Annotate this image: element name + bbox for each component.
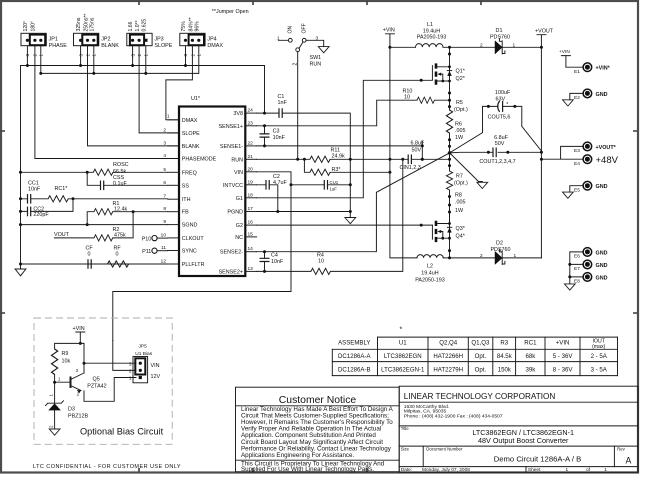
svg-text:Q4*: Q4* (456, 234, 466, 240)
svg-text:E6: E6 (574, 254, 580, 260)
svg-text:+48V: +48V (596, 155, 619, 166)
svg-text:(Opt.): (Opt.) (454, 181, 468, 187)
svg-text:10nF: 10nF (273, 135, 286, 141)
svg-text:10: 10 (404, 95, 410, 101)
svg-text:Phone : (408) 432-1900 Fax :: Phone : (408) 432-1900 Fax : (408) 434-0… (404, 414, 503, 420)
svg-text:22: 22 (248, 140, 254, 146)
svg-text:Q1,Q3: Q1,Q3 (471, 340, 490, 347)
svg-text:INTVCC: INTVCC (223, 183, 243, 189)
svg-text:+VIN: +VIN (73, 326, 85, 332)
svg-text:C1: C1 (278, 94, 285, 100)
svg-text:1: 1 (604, 467, 607, 473)
svg-text:D2: D2 (496, 241, 503, 247)
svg-text:R9: R9 (62, 351, 69, 357)
svg-text:+VOUT: +VOUT (535, 28, 554, 34)
svg-text:12V: 12V (151, 374, 161, 380)
svg-text:Document Number: Document Number (426, 447, 463, 452)
svg-text:CSS: CSS (113, 175, 124, 181)
svg-text:Customer Notice: Customer Notice (279, 395, 357, 406)
svg-text:ITH: ITH (182, 197, 191, 203)
svg-text:COUT5,6: COUT5,6 (488, 115, 511, 121)
svg-text:BLANK: BLANK (101, 43, 119, 49)
svg-text:Date:: Date: (401, 467, 412, 473)
svg-text:DC1286A-B: DC1286A-B (338, 367, 371, 374)
svg-text:PHASEMODE: PHASEMODE (182, 157, 217, 163)
svg-text:21: 21 (248, 154, 254, 160)
svg-text:(max): (max) (592, 344, 606, 350)
svg-text:1: 1 (566, 467, 569, 473)
svg-text:Supplied For Use With Linear T: Supplied For Use With Linear Technology … (241, 466, 374, 473)
svg-text:GND: GND (596, 263, 608, 269)
svg-text:0: 0 (88, 252, 91, 258)
svg-text:Applications Engineering For A: Applications Engineering For Assistance. (241, 452, 355, 459)
svg-text:DC1286A-A: DC1286A-A (338, 353, 371, 360)
svg-text:Demo Circuit 1286A-A / B: Demo Circuit 1286A-A / B (494, 455, 582, 464)
svg-text:PZTA42: PZTA42 (87, 383, 106, 389)
svg-text:11: 11 (161, 245, 166, 251)
svg-text:R8: R8 (455, 193, 462, 199)
svg-text:2: 2 (480, 43, 483, 49)
svg-text:L1: L1 (427, 22, 433, 28)
svg-text:1: 1 (514, 253, 517, 259)
svg-text:325ns: 325ns (76, 17, 82, 31)
svg-text:E5: E5 (574, 188, 580, 194)
svg-text:SLOPE: SLOPE (182, 131, 200, 137)
svg-text:D3: D3 (68, 407, 75, 413)
svg-text:CLKOUT: CLKOUT (182, 236, 205, 242)
svg-text:ROSC: ROSC (113, 162, 129, 168)
svg-text:2: 2 (480, 253, 483, 259)
svg-text:4.7uF: 4.7uF (273, 180, 287, 186)
svg-text:JP3: JP3 (154, 37, 163, 43)
svg-text:PBZ12B: PBZ12B (68, 414, 88, 420)
svg-text:ASSEMBLY: ASSEMBLY (338, 340, 370, 347)
svg-text:3V8: 3V8 (233, 111, 243, 117)
svg-text:BLANK: BLANK (182, 144, 200, 150)
svg-text:15: 15 (248, 231, 254, 237)
svg-text:2: 2 (129, 369, 132, 375)
svg-text:G1: G1 (236, 196, 243, 202)
svg-text:24: 24 (248, 108, 254, 114)
svg-text:RUN: RUN (310, 61, 322, 67)
svg-text:C4: C4 (271, 253, 278, 259)
svg-text:Rev: Rev (617, 447, 625, 452)
svg-text:VOUT: VOUT (54, 232, 70, 238)
svg-text:G2: G2 (236, 223, 243, 229)
svg-text:R3*: R3* (332, 167, 342, 173)
svg-text:+VIN: +VIN (556, 340, 570, 347)
svg-text:JP4: JP4 (207, 37, 216, 43)
svg-text:GND: GND (596, 184, 608, 190)
svg-text:NC: NC (235, 235, 243, 241)
svg-text:R10: R10 (403, 88, 413, 94)
svg-text:Q5: Q5 (93, 376, 100, 382)
svg-text:P11: P11 (142, 249, 151, 255)
svg-text:48V Output Boost Converter: 48V Output Boost Converter (478, 436, 569, 445)
svg-text:14: 14 (248, 246, 254, 252)
svg-text:RUN: RUN (231, 157, 243, 163)
svg-text:150k: 150k (498, 367, 512, 374)
svg-text:1nF: 1nF (278, 100, 288, 106)
svg-text:PHASE: PHASE (49, 43, 68, 49)
svg-text:JP2: JP2 (101, 37, 110, 43)
svg-text:E1: E1 (574, 69, 580, 75)
svg-text:R3: R3 (500, 340, 508, 347)
svg-text:GND: GND (596, 92, 608, 98)
svg-text:5 - 36V: 5 - 36V (553, 353, 574, 360)
svg-text:GND: GND (596, 250, 608, 256)
svg-text:1: 1 (277, 35, 280, 41)
svg-text:39k: 39k (525, 367, 536, 374)
svg-text:75%: 75% (181, 21, 187, 32)
svg-text:FREQ: FREQ (182, 170, 197, 176)
svg-text:1.66: 1.66 (128, 21, 134, 31)
svg-text:DMAX: DMAX (182, 118, 198, 124)
svg-text:0.625: 0.625 (142, 19, 148, 32)
svg-text:1uF: 1uF (330, 187, 338, 192)
svg-text:LTC3862EGN-1: LTC3862EGN-1 (381, 367, 425, 374)
svg-text:0.1uF: 0.1uF (113, 181, 127, 187)
svg-text:SW1: SW1 (310, 55, 322, 61)
svg-text:PDS760: PDS760 (490, 247, 510, 253)
svg-text:17: 17 (248, 206, 254, 212)
svg-text:R6: R6 (455, 122, 462, 128)
svg-text:RC1*: RC1* (55, 186, 69, 192)
svg-text:10: 10 (161, 232, 167, 238)
svg-text:100uF: 100uF (495, 90, 511, 96)
svg-text:2: 2 (49, 425, 54, 428)
svg-text:180°: 180° (31, 21, 37, 32)
svg-text:CU1: CU1 (330, 180, 339, 185)
svg-text:2: 2 (293, 63, 299, 66)
svg-text:1: 1 (167, 114, 170, 120)
svg-text:13: 13 (248, 266, 254, 272)
svg-text:SENSE1+: SENSE1+ (219, 124, 243, 130)
svg-text:RF: RF (114, 245, 122, 251)
svg-text:JP5: JP5 (139, 344, 148, 350)
svg-text:R4: R4 (317, 252, 324, 258)
svg-text:1: 1 (513, 43, 516, 49)
svg-text:12.4k: 12.4k (114, 206, 127, 212)
svg-text:LTC CONFIDENTIAL - FOR CUSTOME: LTC CONFIDENTIAL - FOR CUSTOMER USE ONLY (33, 464, 181, 470)
svg-text:SS: SS (182, 183, 190, 189)
svg-text:Optional Bias Circuit: Optional Bias Circuit (80, 426, 164, 436)
svg-text:SENSE1-: SENSE1- (220, 144, 243, 150)
svg-text:DMAX: DMAX (207, 43, 223, 49)
svg-text:16: 16 (248, 220, 254, 226)
svg-text:50V: 50V (495, 141, 505, 147)
svg-text:250ns**: 250ns** (83, 14, 89, 32)
svg-text:10nF: 10nF (28, 186, 41, 192)
svg-text:E4: E4 (574, 161, 580, 167)
svg-text:ON: ON (287, 26, 293, 34)
svg-text:+VIN*: +VIN* (596, 66, 611, 72)
svg-text:10nF: 10nF (271, 259, 284, 265)
svg-text:+VIN: +VIN (559, 49, 570, 55)
svg-text:SLOPE: SLOPE (154, 43, 172, 49)
svg-text:6.8uF: 6.8uF (494, 135, 508, 141)
svg-text:OFF: OFF (301, 23, 307, 33)
svg-text:E3: E3 (574, 148, 580, 154)
svg-text:FB: FB (182, 210, 189, 216)
svg-text:3: 3 (163, 140, 166, 146)
svg-text:Opt.: Opt. (475, 367, 487, 374)
svg-text:VIN: VIN (151, 363, 160, 369)
svg-text:1: 1 (129, 376, 132, 382)
svg-text:19.4uH: 19.4uH (421, 271, 438, 277)
svg-text:Sheet: Sheet (528, 467, 541, 473)
svg-text:P10: P10 (142, 236, 152, 242)
svg-text:of: of (586, 467, 591, 473)
svg-text:84.5k: 84.5k (497, 353, 513, 360)
svg-text:Title: Title (401, 426, 410, 431)
svg-text:23: 23 (248, 120, 254, 126)
svg-text:VIN: VIN (234, 170, 243, 176)
svg-text:RC1: RC1 (524, 340, 537, 347)
svg-text:**Jumper Open: **Jumper Open (212, 9, 249, 15)
svg-text:10: 10 (318, 259, 324, 265)
svg-text:SENSE2-: SENSE2- (220, 250, 243, 256)
svg-text:LINEAR TECHNOLOGY CORPORATION: LINEAR TECHNOLOGY CORPORATION (404, 392, 556, 401)
svg-text:1W: 1W (455, 208, 464, 214)
svg-text:Q1*: Q1* (456, 69, 466, 75)
svg-text:D1: D1 (496, 28, 503, 34)
svg-text:63V: 63V (496, 97, 506, 103)
svg-text:U1*: U1* (191, 96, 201, 102)
svg-text:50V: 50V (412, 147, 422, 153)
svg-text:Q2,Q4: Q2,Q4 (439, 340, 458, 347)
svg-text:*: * (400, 327, 403, 334)
svg-text:.005: .005 (455, 128, 466, 134)
svg-text:1.0**: 1.0** (135, 20, 141, 31)
svg-text:Q2*: Q2* (456, 76, 466, 82)
svg-text:84%**: 84%** (188, 17, 194, 31)
svg-text:PGND: PGND (227, 210, 243, 216)
svg-text:CF: CF (86, 245, 94, 251)
svg-text:3: 3 (316, 35, 319, 41)
svg-text:3: 3 (129, 361, 132, 367)
svg-text:175ns: 175ns (90, 17, 96, 31)
svg-text:A: A (626, 455, 632, 465)
svg-text:R5: R5 (456, 100, 463, 106)
svg-text:10k: 10k (62, 358, 71, 364)
svg-text:0: 0 (116, 252, 119, 258)
svg-text:24.9k: 24.9k (332, 154, 345, 160)
svg-text:E7: E7 (574, 266, 580, 272)
svg-text:475k: 475k (114, 233, 126, 239)
svg-text:PA2050-193: PA2050-193 (417, 35, 447, 41)
svg-text:L2: L2 (427, 264, 433, 270)
svg-text:PLLFLTR: PLLFLTR (182, 262, 205, 268)
svg-text:1: 1 (49, 394, 54, 397)
svg-text:JP1: JP1 (49, 37, 58, 43)
svg-text:Size: Size (401, 447, 410, 452)
svg-text:PDS760: PDS760 (490, 34, 510, 40)
svg-text:20: 20 (248, 166, 254, 172)
svg-text:U1: U1 (399, 340, 407, 347)
svg-text:2: 2 (163, 127, 166, 133)
svg-text:(Opt.): (Opt.) (454, 107, 468, 113)
svg-text:120°: 120° (23, 21, 29, 32)
svg-text:COUT1,2,3,4,7: COUT1,2,3,4,7 (479, 159, 515, 165)
svg-text:96%: 96% (195, 21, 201, 32)
svg-text:1W: 1W (455, 135, 464, 141)
svg-text:.005: .005 (455, 199, 466, 205)
svg-text:Monday, July 07, 2008: Monday, July 07, 2008 (422, 467, 470, 473)
svg-text:HAT2279H: HAT2279H (433, 367, 463, 374)
svg-text:SENSE2+: SENSE2+ (219, 269, 243, 275)
svg-text:R7: R7 (456, 174, 463, 180)
svg-text:2 - 5A: 2 - 5A (591, 353, 608, 360)
svg-text:+VOUT*: +VOUT* (596, 145, 617, 151)
svg-text:18: 18 (248, 192, 254, 198)
svg-text:Q3*: Q3* (456, 226, 466, 232)
svg-text:C2: C2 (273, 174, 280, 180)
svg-text:3 - 5A: 3 - 5A (591, 367, 608, 374)
svg-text:LTC3862EGN: LTC3862EGN (384, 353, 422, 360)
svg-text:SYNC: SYNC (182, 249, 197, 255)
svg-text:SGND: SGND (182, 223, 198, 229)
svg-text:4: 4 (163, 153, 166, 159)
svg-text:6.8uF: 6.8uF (411, 140, 425, 146)
svg-text:68k: 68k (525, 353, 536, 360)
svg-text:220pF: 220pF (33, 212, 49, 218)
svg-text:GND: GND (596, 275, 608, 281)
svg-text:HAT2266H: HAT2266H (433, 353, 463, 360)
svg-text:PA2050-193: PA2050-193 (415, 278, 445, 284)
svg-text:E8: E8 (574, 279, 580, 285)
svg-text:+VIN: +VIN (383, 28, 395, 34)
svg-text:8 - 36V: 8 - 36V (553, 367, 574, 374)
svg-text:E2: E2 (574, 95, 580, 101)
svg-text:19.4uH: 19.4uH (423, 28, 440, 34)
svg-text:C3: C3 (273, 129, 280, 135)
svg-text:19: 19 (248, 179, 254, 185)
svg-text:Opt.: Opt. (475, 353, 487, 360)
